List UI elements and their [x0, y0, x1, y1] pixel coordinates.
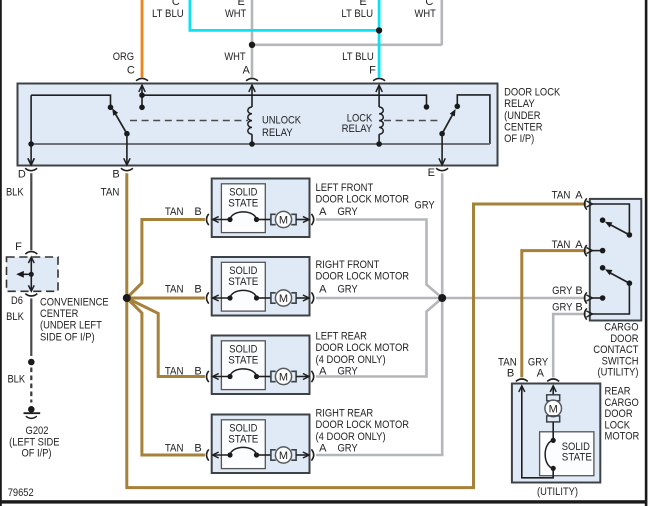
cargo switch pin A connector (lower TAN) [552, 239, 606, 256]
svg-text:G202: G202 [26, 425, 49, 437]
unlock switch (left, arm with contacts) [108, 105, 130, 137]
svg-text:B: B [507, 368, 514, 380]
svg-text:B: B [194, 206, 201, 218]
svg-text:A: A [319, 284, 327, 296]
svg-text:(UNDER: (UNDER [504, 110, 540, 122]
svg-text:RELAY: RELAY [262, 127, 293, 139]
svg-text:(UNDER LEFT: (UNDER LEFT [40, 320, 102, 332]
svg-text:STATE: STATE [228, 276, 258, 288]
left rear door lock motor pin B connector [165, 365, 230, 382]
svg-text:A: A [319, 442, 327, 454]
left rear door lock motor box [212, 330, 409, 394]
wire GRY from left front motor to junction [316, 220, 442, 299]
left front door lock motor pin A connector [296, 206, 358, 225]
wire GRY from cargo switch lower pin B to rear cargo motor pin A [553, 314, 586, 377]
wire E WHT (gray, from top to relay pin A) [225, 0, 252, 77]
svg-text:B: B [575, 285, 582, 297]
left front door lock motor motor M [257, 211, 297, 227]
svg-text:DOOR LOCK MOTOR: DOOR LOCK MOTOR [316, 271, 410, 283]
svg-text:GRY: GRY [528, 356, 549, 368]
left front door lock motor pin B connector [165, 206, 230, 225]
svg-text:LT BLU: LT BLU [341, 8, 373, 20]
svg-text:OF I/P): OF I/P) [21, 447, 51, 459]
svg-text:(4 DOOR ONLY): (4 DOOR ONLY) [316, 354, 386, 366]
svg-text:LOCK: LOCK [605, 419, 631, 431]
svg-text:STATE: STATE [228, 354, 258, 366]
svg-text:WHT: WHT [225, 8, 247, 20]
lock relay coil [342, 85, 384, 147]
svg-text:RELAY: RELAY [342, 123, 373, 135]
connector F (convenience center top) [15, 241, 37, 254]
cargo switch lower switch [600, 265, 632, 286]
dashed actuation link lock side [384, 120, 439, 122]
label convenience center [40, 297, 109, 344]
svg-text:TAN: TAN [498, 356, 517, 368]
right rear door lock motor solid state actuator [227, 447, 259, 457]
dashed BLK wire to ground [7, 368, 31, 403]
svg-text:(UTILITY): (UTILITY) [598, 367, 639, 379]
svg-text:GRY: GRY [552, 285, 573, 297]
svg-text:SWITCH: SWITCH [602, 355, 639, 367]
svg-text:C: C [172, 0, 180, 8]
svg-text:RELAY: RELAY [504, 98, 535, 110]
svg-text:TAN: TAN [101, 187, 120, 199]
svg-text:DOOR LOCK MOTOR: DOOR LOCK MOTOR [316, 419, 410, 431]
splice dot on BLK wire [28, 359, 35, 366]
svg-text:C: C [425, 0, 433, 8]
svg-text:CARGO: CARGO [605, 397, 640, 409]
left front door lock motor solid state actuator [227, 212, 259, 222]
svg-text:TAN: TAN [165, 284, 184, 296]
right front door lock motor pin A connector [296, 284, 358, 304]
svg-text:A: A [319, 206, 327, 218]
rear cargo door lock motor box (UTILITY) [512, 384, 639, 498]
rear cargo motor pin A connector (GRY) [528, 356, 559, 392]
svg-text:STATE: STATE [228, 197, 258, 209]
svg-text:CONVENIENCE: CONVENIENCE [40, 297, 109, 309]
svg-text:TAN: TAN [165, 206, 184, 218]
cargo switch pin A connector (upper TAN) [552, 189, 593, 209]
svg-text:DOOR LOCK MOTOR: DOOR LOCK MOTOR [316, 194, 410, 206]
relay internal wire: D branch down [28, 95, 34, 165]
ground G202 [9, 406, 59, 459]
svg-text:LT BLU: LT BLU [152, 8, 184, 20]
rear cargo motor solid state unit [540, 432, 594, 476]
svg-text:DOOR: DOOR [605, 408, 633, 420]
door lock relay box (UNDER CENTER OF I/P) [18, 84, 561, 166]
right rear door lock motor pin A connector [296, 442, 358, 460]
svg-text:A: A [319, 365, 327, 377]
svg-text:B: B [194, 365, 201, 377]
svg-text:UNLOCK: UNLOCK [262, 115, 302, 127]
left rear door lock motor solid state unit [221, 341, 265, 390]
connector B (relay bottom) [112, 134, 133, 181]
svg-text:E: E [428, 167, 435, 179]
left rear door lock motor motor M [257, 368, 297, 384]
unlock relay coil [248, 85, 302, 147]
relay internal wire: top bus from D branch to left switch contact [31, 95, 110, 107]
svg-text:M: M [279, 215, 288, 227]
svg-text:M: M [279, 293, 288, 305]
svg-text:M: M [279, 450, 288, 462]
svg-text:LT BLU: LT BLU [342, 51, 374, 63]
connector E (relay bottom) [428, 134, 448, 179]
right rear door lock motor solid state unit [221, 420, 265, 469]
svg-text:RIGHT FRONT: RIGHT FRONT [316, 259, 380, 271]
svg-text:DOOR: DOOR [610, 333, 638, 345]
svg-text:LEFT REAR: LEFT REAR [316, 330, 367, 342]
svg-text:A: A [537, 368, 545, 380]
svg-text:E: E [359, 0, 366, 8]
right rear door lock motor box [212, 407, 409, 473]
wire GRY from relay E down to gray junction [414, 173, 442, 298]
svg-text:GRY: GRY [337, 284, 358, 296]
connector D6 (convenience center bottom) [11, 294, 37, 307]
wire TAN to right front door lock motor [127, 297, 205, 300]
svg-text:BLK: BLK [6, 311, 24, 323]
wire GRY right front motor through junction to cargo switch pin B [316, 297, 586, 300]
relay internal wire: right inner loop to lock switch contact [457, 95, 490, 144]
left rear door lock motor solid state actuator [227, 369, 259, 379]
svg-text:TAN: TAN [165, 365, 184, 377]
svg-text:(UTILITY): (UTILITY) [537, 486, 578, 498]
right rear door lock motor motor M [257, 447, 297, 463]
connector D (relay bottom) [18, 158, 37, 180]
wire BLK from relay D to convenience center [6, 173, 31, 250]
right rear door lock motor pin B connector [165, 442, 230, 460]
right front door lock motor solid state actuator [227, 290, 259, 300]
svg-text:M: M [549, 403, 558, 415]
svg-text:BLK: BLK [6, 187, 24, 199]
connector F (relay top, light blue wire) [369, 65, 385, 92]
relay internal wire: top bus from pin C to right switch left contact [139, 85, 426, 110]
right front door lock motor box [212, 257, 409, 316]
svg-text:GRY: GRY [337, 365, 358, 377]
right front door lock motor motor M [257, 290, 297, 306]
svg-text:RIGHT REAR: RIGHT REAR [316, 407, 374, 419]
right front door lock motor pin B connector [165, 284, 230, 304]
svg-text:F: F [15, 241, 22, 253]
svg-text:GRY: GRY [337, 442, 358, 454]
wire TAN to right rear door lock motor [127, 298, 205, 455]
svg-text:E: E [238, 0, 245, 8]
relay internal wire: bottom bus [31, 143, 490, 145]
wire TAN bottom bus to cargo door contact switch pin A [127, 204, 586, 488]
rear cargo motor M symbol [545, 386, 562, 441]
wire BLK from convenience center down [6, 298, 31, 356]
convenience center circuit breaker (dashed box) [7, 257, 59, 291]
svg-text:STATE: STATE [562, 452, 592, 464]
junction LT BLU wires [376, 27, 382, 33]
wire GRY from right rear motor to junction [316, 298, 442, 455]
wire C WHT (gray, top right, joins E WHT) [252, 0, 442, 45]
svg-text:GRY: GRY [337, 206, 358, 218]
cargo switch pin B connector (lower GRY) [552, 283, 629, 319]
svg-text:CENTER: CENTER [40, 308, 78, 320]
svg-text:SIDE OF I/P): SIDE OF I/P) [40, 331, 95, 343]
svg-text:A: A [575, 189, 583, 201]
tan splice junction [123, 294, 131, 302]
svg-text:OF I/P): OF I/P) [504, 133, 534, 145]
svg-text:REAR: REAR [605, 386, 631, 398]
svg-text:CONTACT: CONTACT [593, 344, 638, 356]
lock switch (right, arm with contacts) [424, 104, 460, 137]
gray splice junction [438, 294, 446, 302]
junction WHT wires [249, 42, 255, 48]
svg-text:B: B [194, 442, 201, 454]
wire TAN to left front door lock motor [127, 220, 205, 299]
svg-text:STATE: STATE [228, 433, 258, 445]
svg-text:WHT: WHT [415, 8, 437, 20]
svg-text:C: C [127, 65, 135, 77]
svg-text:B: B [575, 302, 582, 314]
cargo door contact switch box (UTILITY) [590, 199, 642, 379]
wire GRY from left rear motor to junction [316, 298, 442, 377]
svg-text:WHT: WHT [224, 51, 246, 63]
rear cargo motor solid state actuator [545, 438, 556, 471]
svg-text:D: D [18, 169, 26, 181]
wire TAN from relay B to splice [101, 173, 127, 298]
svg-text:F: F [369, 65, 376, 77]
svg-text:B: B [112, 169, 119, 181]
svg-text:MOTOR: MOTOR [605, 431, 640, 443]
cargo switch upper switch [593, 204, 633, 238]
wire TAN from cargo switch second pin A to rear cargo motor pin B [522, 251, 586, 378]
wire TAN to left rear door lock motor [127, 298, 205, 377]
left front door lock motor box [212, 179, 409, 238]
wire ORG (orange, from top to relay pin C) [113, 0, 142, 77]
svg-text:GRY: GRY [414, 199, 435, 211]
svg-text:D6: D6 [11, 295, 23, 307]
rear cargo motor internal wire from pin B [522, 386, 553, 478]
svg-text:CENTER: CENTER [504, 121, 542, 133]
svg-text:LEFT FRONT: LEFT FRONT [316, 182, 374, 194]
svg-text:TAN: TAN [552, 189, 571, 201]
svg-text:M: M [279, 372, 288, 384]
svg-text:79652: 79652 [8, 487, 34, 499]
svg-text:B: B [194, 284, 201, 296]
dashed actuation link unlock side [130, 120, 248, 122]
svg-text:(4 DOOR ONLY): (4 DOOR ONLY) [316, 431, 386, 443]
svg-text:GRY: GRY [552, 302, 573, 314]
svg-text:TAN: TAN [165, 442, 184, 454]
rear cargo motor pin B connector (TAN) [498, 356, 528, 392]
connector A (relay top, white wire) [243, 65, 258, 92]
cargo switch pin B connector (upper GRY) [552, 285, 605, 304]
right front door lock motor solid state unit [221, 262, 265, 311]
svg-text:CARGO: CARGO [604, 322, 639, 334]
svg-text:A: A [243, 65, 251, 77]
wire E LT BLU (cyan, from top to relay pin F) [341, 0, 379, 77]
left front door lock motor solid state unit [221, 184, 265, 233]
svg-text:DOOR LOCK MOTOR: DOOR LOCK MOTOR [316, 342, 410, 354]
wire C LT BLU (cyan, from top, joins E LT BLU) [152, 0, 379, 32]
svg-text:ORG: ORG [113, 51, 134, 63]
svg-text:A: A [575, 239, 583, 251]
svg-text:TAN: TAN [552, 239, 571, 251]
left rear door lock motor pin A connector [296, 365, 358, 382]
svg-text:DOOR LOCK: DOOR LOCK [504, 87, 561, 99]
svg-text:BLK: BLK [7, 373, 25, 385]
connector C (relay top, orange wire) [127, 65, 148, 92]
